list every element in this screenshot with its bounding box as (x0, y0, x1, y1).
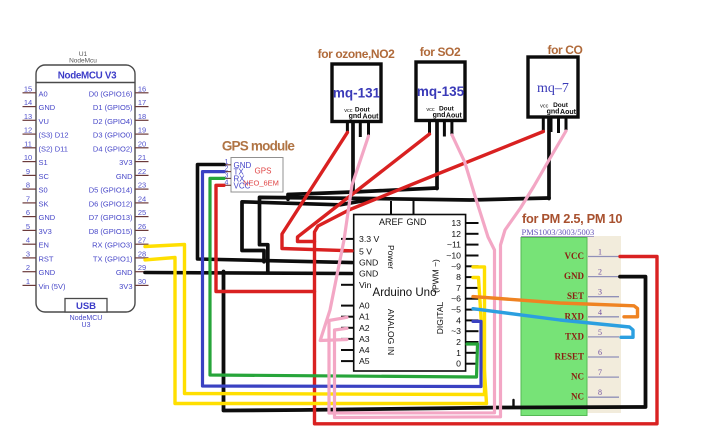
Arduino digital pin 4 (456, 315, 478, 325)
sensor mq-135 pin stub 2 (436, 121, 439, 135)
wire pink: mq-7 Aout to Arduino A2 (335, 131, 567, 418)
svg-text:11: 11 (24, 139, 32, 148)
wire blue: GPS TX to Arduino pin 4 (203, 172, 482, 387)
svg-text:A0: A0 (39, 89, 48, 98)
svg-text:12: 12 (24, 126, 32, 135)
svg-text:mq-135: mq-135 (417, 84, 465, 99)
Arduino left pin A0 (341, 301, 370, 311)
svg-text:3.3 V: 3.3 V (359, 234, 379, 244)
svg-text:VU: VU (39, 117, 49, 126)
svg-text:24: 24 (138, 194, 146, 203)
Arduino AREF pin (379, 201, 404, 227)
wire GND: mq-135 gnd down to gnd bus row A (435, 121, 439, 189)
wire yellow: NodeMCU TX(GPIO1) pin28 to Arduino pin 8 (145, 258, 487, 404)
svg-text:5: 5 (598, 328, 602, 337)
Arduino Uno body (354, 215, 466, 372)
NodeMCU pin 4 EN (23, 236, 49, 250)
NodeMCU pin 17 D1 (GPIO5) (93, 98, 149, 112)
sensor mq-135 pin stub 3 (443, 121, 446, 137)
svg-text:USB: USB (76, 301, 96, 312)
Arduino digital pin ~11 (447, 240, 479, 250)
svg-text:RESET: RESET (554, 352, 584, 362)
svg-text:Aout: Aout (560, 109, 577, 116)
svg-text:~6: ~6 (451, 294, 461, 304)
Arduino left pin A3 (341, 334, 370, 344)
PM pin 8 NC (571, 388, 619, 402)
svg-text:U3: U3 (82, 322, 91, 329)
Arduino left pin 5 V (341, 247, 372, 257)
svg-text:Vin (5V): Vin (5V) (39, 282, 66, 291)
wire VCC: mq-131 vcc diagonal to Arduino 5V (282, 132, 352, 250)
svg-text:2: 2 (456, 337, 461, 347)
Arduino digital pin ~3 (451, 326, 478, 336)
svg-text:GND: GND (39, 213, 56, 222)
NodeMCU pin 3 RST (23, 249, 54, 263)
svg-text:NodeMcu: NodeMcu (69, 58, 97, 65)
svg-text:9: 9 (26, 167, 30, 176)
wire GND: GPS GND to Arduino GND (upper) (198, 165, 353, 263)
wire GND junction tick on bottom rail (512, 400, 514, 408)
NodeMCU pin 29 GND (116, 263, 149, 277)
Arduino digital pin ~9 (451, 261, 478, 271)
NodeMCU pin 16 D0 (GPIO16) (89, 84, 149, 98)
wire VCC: GPS VCC joining main 5V bus (216, 185, 315, 291)
svg-text:D5 (GPIO14): D5 (GPIO14) (89, 186, 133, 195)
Arduino digital pin 2 (456, 337, 478, 347)
wire pink: mq-131 Aout to Arduino A3 (320, 136, 368, 341)
sensor mq-131 pin stub 4 (367, 122, 370, 137)
PM pin 4 RXD (565, 308, 620, 322)
svg-text:28: 28 (138, 249, 146, 258)
wire GND bus row B with drop to NodeMCU GND rail (260, 197, 550, 272)
svg-text:~3: ~3 (451, 326, 461, 336)
svg-text:A4: A4 (359, 345, 370, 355)
Arduino digital pin ~6 (451, 294, 478, 304)
wire GND: mq-7 gnd down to gnd bus row B (547, 118, 551, 199)
svg-text:Power: Power (386, 245, 396, 269)
svg-text:for SO2: for SO2 (420, 45, 461, 59)
svg-text:D3 (GPIO0): D3 (GPIO0) (93, 131, 133, 140)
Arduino digital pin 12 (451, 229, 478, 239)
wire VCC: mq-7 vcc diagonal joining main 5V bus, down, bottom and up to PM VCC (315, 132, 658, 424)
svg-text:5 V: 5 V (359, 247, 372, 257)
NodeMCU pin 30 3V3 (119, 277, 148, 291)
GPS module body (231, 158, 283, 193)
sensor mq-131 pin stub 2 (352, 122, 355, 136)
svg-text:RST: RST (39, 254, 54, 263)
svg-text:EN: EN (39, 241, 49, 250)
svg-text:for PM 2.5, PM 10: for PM 2.5, PM 10 (522, 211, 622, 226)
svg-text:0: 0 (456, 359, 461, 369)
Arduino left pin 3.3 V (341, 234, 379, 244)
Arduino left pin GND (341, 258, 378, 268)
svg-text:gnd: gnd (547, 109, 560, 116)
wire cyan: Arduino pin 5 to PM TXD (473, 309, 633, 338)
Arduino left pin A1 (341, 312, 370, 322)
svg-text:D8 (GPIO15): D8 (GPIO15) (89, 227, 133, 236)
svg-text:DIGITAL: DIGITAL (435, 302, 445, 335)
NodeMCU pin 8 S0 (23, 181, 48, 195)
wire GND bus row A (mq-131/mq-135 gnd) with jog down onto row B (288, 188, 437, 199)
svg-text:10: 10 (24, 153, 32, 162)
NodeMCU pin 13 VU (23, 112, 49, 126)
svg-text:3V3: 3V3 (119, 282, 132, 291)
NodeMCU pin 25 D7 (GPIO13) (89, 208, 149, 222)
svg-text:21: 21 (138, 153, 146, 162)
svg-text:GND: GND (407, 217, 428, 227)
svg-text:mq-131: mq-131 (333, 85, 381, 100)
svg-text:2: 2 (598, 268, 602, 277)
svg-text:PMS1003/3003/5003: PMS1003/3003/5003 (522, 227, 595, 237)
NodeMCU pin 6 GND (23, 208, 56, 222)
sensor mq-135 pin stub 1 (428, 121, 431, 134)
svg-text:D1 (GPIO5): D1 (GPIO5) (93, 103, 133, 112)
Arduino left pin GND (341, 269, 378, 279)
wire orange: Arduino pin 6 to PM RXD (473, 297, 638, 317)
svg-text:GND: GND (564, 271, 585, 281)
svg-text:~5: ~5 (451, 305, 461, 315)
sensor mq-135 body (416, 62, 465, 121)
svg-text:Vin: Vin (359, 280, 372, 290)
svg-text:GND: GND (359, 258, 378, 268)
svg-text:A3: A3 (359, 334, 370, 344)
svg-text:VCC: VCC (565, 251, 585, 261)
svg-text:Aout: Aout (363, 114, 380, 121)
svg-text:7: 7 (598, 368, 602, 377)
svg-text:for CO: for CO (548, 43, 583, 57)
NodeMCU pin 19 D3 (GPIO0) (93, 126, 149, 140)
PM pin 6 RESET (554, 348, 619, 362)
NodeMCU U1 body (36, 65, 135, 312)
Arduino digital pin 0 (456, 359, 478, 369)
svg-text:AREF: AREF (379, 217, 404, 227)
Arduino left pin A4 (341, 345, 370, 355)
svg-text:SK: SK (39, 199, 49, 208)
sensor mq-135 pin stub 4 (450, 121, 453, 136)
svg-text:20: 20 (138, 139, 146, 148)
sensor mq-7 pin stub 1 (542, 117, 545, 131)
wire GND: NodeMCU pin29 GND to Arduino GND (lower) (145, 273, 352, 274)
svg-text:6: 6 (26, 208, 30, 217)
NodeMCU pin 9 SC (23, 167, 50, 181)
Arduino digital pin 7 (456, 283, 478, 293)
svg-text:ANALOG IN: ANALOG IN (386, 309, 396, 355)
NodeMCU pin 28 TX (GPIO1) (93, 249, 149, 263)
Arduino left pin A2 (341, 323, 370, 333)
svg-text:GND: GND (39, 103, 56, 112)
svg-text:gnd: gnd (433, 112, 446, 119)
NodeMCU pin 20 D4 (GPIO2) (93, 139, 149, 153)
svg-text:25: 25 (138, 208, 146, 217)
PM pin 3 SET (567, 288, 619, 302)
PM module beige pin panel (521, 236, 621, 413)
svg-text:4: 4 (456, 315, 461, 325)
svg-text:23: 23 (138, 181, 146, 190)
NodeMCU pin 7 SK (23, 194, 49, 208)
PM pin 5 TXD (565, 328, 619, 342)
svg-text:for ozone,NO2: for ozone,NO2 (318, 47, 396, 61)
Arduino digital pin 8 (456, 272, 478, 282)
NodeMCU pin 23 D5 (GPIO14) (89, 181, 149, 195)
svg-text:D7 (GPIO13): D7 (GPIO13) (89, 213, 133, 222)
svg-text:D4 (GPIO2): D4 (GPIO2) (93, 144, 133, 153)
svg-text:A0: A0 (359, 301, 370, 311)
svg-text:GPS: GPS (255, 167, 272, 176)
svg-text:14: 14 (24, 98, 32, 107)
GPS pin 2 TX (222, 166, 244, 177)
sensor mq-131 body (332, 64, 381, 122)
svg-text:18: 18 (138, 112, 146, 121)
svg-text:19: 19 (138, 126, 146, 135)
svg-text:(S2) D11: (S2) D11 (39, 144, 68, 153)
svg-text:D2 (GPIO4): D2 (GPIO4) (93, 117, 133, 126)
svg-text:3V3: 3V3 (119, 158, 132, 167)
sensor mq-131 pin stub 3 (359, 122, 362, 138)
NodeMCU pin 2 GND (23, 263, 56, 277)
svg-text:1: 1 (456, 348, 461, 358)
svg-text:12: 12 (451, 229, 461, 239)
svg-text:22: 22 (138, 167, 146, 176)
svg-text:3: 3 (598, 288, 602, 297)
NodeMCU pin 21 3V3 (119, 153, 148, 167)
NodeMCU USB connector (65, 299, 107, 313)
svg-text:7: 7 (456, 283, 461, 293)
wire GND: PM GND loop right side and bottom back to NodeMCU GND rail (224, 272, 646, 411)
svg-text:GND: GND (116, 172, 133, 181)
svg-text:13: 13 (451, 218, 461, 228)
svg-text:3: 3 (26, 249, 30, 258)
NodeMCU pin 14 GND (23, 98, 56, 112)
svg-text:15: 15 (24, 84, 32, 93)
wire GND: mq-131 gnd down to gnd bus row A (351, 122, 355, 193)
svg-text:1: 1 (26, 277, 30, 286)
svg-text:TXD: TXD (565, 331, 585, 341)
sensor mq-7 pin stub 3 (557, 117, 560, 133)
svg-text:GND: GND (359, 269, 378, 279)
svg-text:D6 (GPIO12): D6 (GPIO12) (89, 199, 133, 208)
svg-text:26: 26 (138, 222, 146, 231)
svg-text:(S3) D12: (S3) D12 (39, 131, 69, 140)
svg-text:27: 27 (138, 236, 146, 245)
wire GND bus row C from mq-7 side with drop to GPS gnd rail (242, 200, 370, 262)
PM module green body (521, 238, 587, 416)
svg-text:NC: NC (571, 392, 584, 402)
sensor mq-7 pin stub 2 (550, 117, 553, 132)
sensor mq-7 pin stub 4 (565, 117, 568, 131)
NodeMCU pin 10 S1 (23, 153, 48, 167)
wire pink: mq-135 Aout to Arduino A1 (329, 135, 495, 413)
svg-text:2: 2 (26, 263, 30, 272)
GPS pin 4 VCC (222, 179, 251, 190)
svg-text:S0: S0 (39, 186, 48, 195)
svg-text:mq–7: mq–7 (537, 81, 569, 96)
Arduino digital pin ~5 (451, 305, 478, 315)
wire green: GPS RX to Arduino pin 2 (210, 178, 478, 377)
svg-text:NC: NC (571, 372, 584, 382)
GPS pin 1 GND (222, 159, 252, 170)
svg-text:1: 1 (598, 248, 602, 257)
svg-text:17: 17 (138, 98, 146, 107)
svg-text:GND: GND (116, 268, 133, 277)
Arduino digital pin 1 (456, 348, 478, 358)
Arduino left pin Vin (341, 280, 372, 290)
NodeMCU pin 24 D6 (GPIO12) (89, 194, 149, 208)
svg-text:4: 4 (598, 308, 602, 317)
svg-text:5: 5 (26, 222, 30, 231)
svg-text:8: 8 (598, 388, 602, 397)
svg-text:7: 7 (26, 194, 30, 203)
svg-text:NodeMCU: NodeMCU (70, 315, 103, 322)
svg-text:30: 30 (138, 277, 146, 286)
NodeMCU pin 26 D8 (GPIO15) (89, 222, 149, 236)
PM pin 7 NC (571, 368, 619, 382)
PM module label underline (521, 235, 594, 237)
Arduino top GND pin (407, 201, 428, 227)
NodeMCU pin 22 GND (116, 167, 149, 181)
svg-text:S1: S1 (39, 158, 48, 167)
Arduino digital pin 13 (451, 218, 478, 228)
NodeMCU pin 12 (S3) D12 (23, 126, 69, 140)
svg-text:16: 16 (138, 84, 146, 93)
svg-text:6: 6 (598, 348, 602, 357)
svg-text:A2: A2 (359, 323, 370, 333)
svg-text:GPS module: GPS module (222, 139, 296, 154)
svg-text:8: 8 (26, 181, 30, 190)
sensor mq-7 body (528, 57, 578, 117)
svg-text:GND: GND (39, 268, 56, 277)
svg-text:Arduino Uno: Arduino Uno (373, 287, 437, 299)
svg-text:(PWM ~): (PWM ~) (431, 259, 441, 293)
svg-text:NodeMCU V3: NodeMCU V3 (58, 71, 117, 82)
svg-text:TX (GPIO1): TX (GPIO1) (93, 254, 133, 263)
svg-text:VCC: VCC (234, 181, 251, 190)
PM pin 2 GND (564, 268, 619, 282)
svg-text:4: 4 (26, 236, 30, 245)
NodeMCU pin 18 D2 (GPIO4) (93, 112, 149, 126)
NodeMCU pin 11 (S2) D11 (23, 139, 68, 153)
PM pin 1 VCC (565, 248, 620, 262)
sensor mq-131 pin stub 1 (346, 122, 349, 133)
svg-text:Aout: Aout (446, 113, 463, 120)
svg-text:3V3: 3V3 (39, 227, 52, 236)
svg-text:~9: ~9 (451, 261, 461, 271)
wire yellow: NodeMCU RX(GPIO3) pin27 to Arduino pin 9 (145, 245, 485, 395)
svg-text:D0 (GPIO16): D0 (GPIO16) (89, 89, 133, 98)
Arduino digital pin ~10 (446, 251, 478, 261)
Arduino left pin A5 (341, 356, 370, 366)
svg-text:SET: SET (567, 291, 584, 301)
svg-text:gnd: gnd (349, 113, 362, 120)
NodeMCU pin 15 A0 (23, 84, 48, 98)
NodeMCU pin 5 3V3 (23, 222, 52, 236)
wire VCC: mq-135 vcc diagonal joining main 5V bus (298, 134, 430, 242)
NodeMCU pin 27 RX (GPIO3) (92, 236, 148, 250)
GPS pin 3 RX (222, 172, 245, 183)
NodeMCU pin 1 Vin (5V) (23, 277, 66, 291)
svg-text:A1: A1 (359, 312, 370, 322)
svg-text:RX (GPIO3): RX (GPIO3) (92, 241, 133, 250)
svg-text:13: 13 (24, 112, 32, 121)
svg-text:~10: ~10 (446, 251, 461, 261)
svg-text:SC: SC (39, 172, 50, 181)
svg-text:8: 8 (456, 272, 461, 282)
svg-text:~11: ~11 (447, 240, 461, 250)
svg-text:A5: A5 (359, 356, 370, 366)
